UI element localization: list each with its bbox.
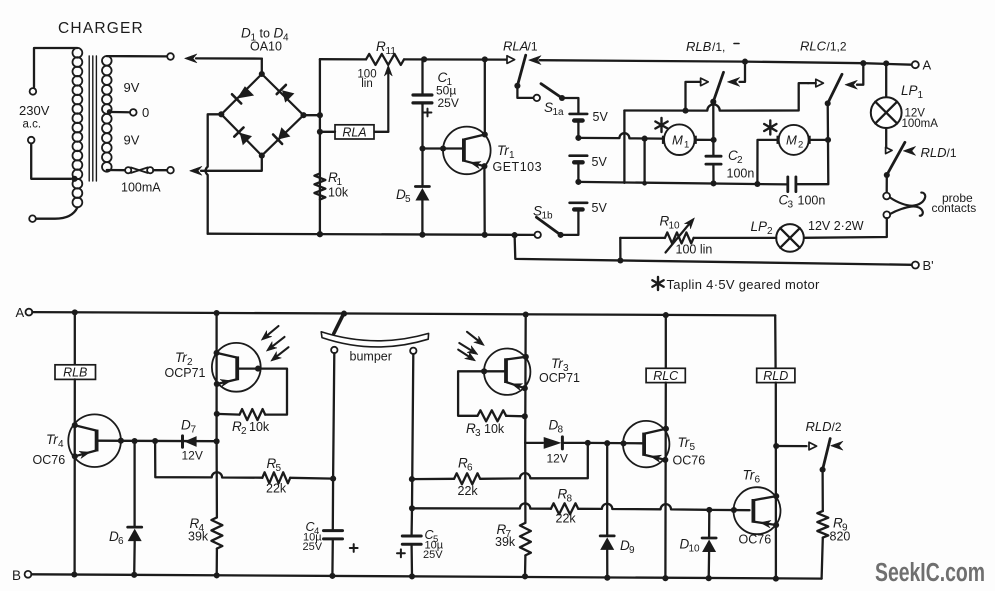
battery cell 5V (3) bbox=[561, 201, 608, 235]
light arrows Tr2 bbox=[261, 326, 288, 361]
wire RLD/1 to probe bbox=[886, 175, 888, 193]
label 100 lin bbox=[357, 69, 376, 91]
svg-text:OA10: OA10 bbox=[250, 40, 282, 54]
svg-text:SeekIC.com: SeekIC.com bbox=[875, 559, 985, 587]
label R4 39k bbox=[188, 516, 209, 544]
wire rail B bbox=[31, 571, 821, 581]
label R5 22k bbox=[266, 456, 287, 496]
wire M1 left branch bbox=[642, 139, 647, 186]
label Tr6 OC76 bbox=[739, 468, 772, 547]
wire tap1 to motor M1 bbox=[578, 133, 662, 141]
svg-text:9: 9 bbox=[629, 545, 635, 556]
bumper strut bbox=[334, 313, 344, 333]
label D7 12V bbox=[181, 418, 203, 463]
svg-text:RLA: RLA bbox=[503, 39, 528, 54]
svg-text:22k: 22k bbox=[266, 482, 287, 496]
primary terminal top + wire bbox=[30, 48, 78, 95]
wire M2 right bbox=[811, 137, 831, 143]
label C2 100n bbox=[727, 148, 755, 181]
diode D1 bbox=[232, 86, 254, 103]
svg-text:3: 3 bbox=[788, 200, 794, 211]
label S1a bbox=[544, 100, 564, 118]
diode D8 bbox=[525, 437, 585, 449]
switch S1b bbox=[535, 217, 564, 238]
svg-text:OC76: OC76 bbox=[673, 454, 706, 468]
diode D7 bbox=[183, 436, 197, 447]
label Tr3 OCP71 bbox=[539, 356, 580, 385]
svg-text:5: 5 bbox=[405, 194, 411, 205]
resistor R4 bbox=[211, 441, 222, 575]
svg-text:100mA: 100mA bbox=[121, 181, 161, 195]
svg-text:GET103: GET103 bbox=[493, 160, 543, 174]
label bumper bbox=[350, 350, 392, 364]
diode D3 bbox=[234, 128, 252, 146]
label R11 bbox=[376, 39, 396, 57]
label Tr5 OC76 bbox=[673, 435, 706, 468]
label D6 bbox=[109, 529, 124, 547]
capacitor C2 100n bbox=[706, 102, 721, 184]
wire B-prime rail bbox=[515, 235, 912, 265]
note Taplin motor bbox=[652, 277, 820, 292]
svg-text:5V: 5V bbox=[592, 201, 608, 215]
svg-text:D: D bbox=[274, 26, 284, 41]
svg-text:22k: 22k bbox=[556, 512, 577, 526]
switch S1a bbox=[517, 84, 578, 114]
relay contact RLB/1 bbox=[710, 59, 748, 105]
transformer T1 secondary winding bbox=[102, 56, 112, 172]
svg-text:/1: /1 bbox=[947, 146, 957, 160]
svg-text:RLC: RLC bbox=[653, 369, 679, 383]
junctions top wire bbox=[421, 56, 488, 62]
svg-text:6: 6 bbox=[755, 475, 761, 486]
wire LP1 to RLD/1 bbox=[885, 128, 887, 147]
svg-text:4: 4 bbox=[283, 33, 289, 44]
svg-text:22k: 22k bbox=[458, 484, 479, 498]
wire top + resistor R11 body bbox=[320, 54, 507, 65]
battery tap 1 bbox=[575, 135, 581, 141]
R10 adjust arrow bbox=[666, 218, 695, 253]
svg-text:25V: 25V bbox=[423, 549, 443, 561]
capacitor C1 50u bbox=[413, 59, 432, 148]
wire Tr5 base bbox=[588, 440, 642, 446]
svg-text:bumper: bumper bbox=[350, 350, 392, 364]
svg-text:5: 5 bbox=[690, 442, 696, 453]
label LP2 12V 2.2W bbox=[751, 219, 864, 237]
wire aux rail bbox=[624, 83, 808, 114]
wire Tr3 chord bbox=[522, 315, 529, 443]
svg-text:RLB: RLB bbox=[63, 366, 87, 380]
resistor R7 bbox=[520, 523, 531, 577]
svg-text:RLC: RLC bbox=[800, 39, 827, 54]
probe contacts bbox=[883, 193, 925, 219]
relay contact RLC/1,2 bbox=[825, 60, 867, 106]
bridge junctions bbox=[218, 71, 306, 159]
label S1b bbox=[533, 204, 553, 222]
svg-text:5V: 5V bbox=[592, 155, 608, 169]
RLC triangle terminal bbox=[808, 79, 823, 87]
transistor Tr6 bbox=[734, 487, 781, 534]
wire Tr6 base bbox=[709, 507, 749, 513]
svg-text:39k: 39k bbox=[188, 530, 209, 544]
svg-text:10k: 10k bbox=[484, 422, 505, 436]
wire bumper-right / C5 branch bbox=[409, 354, 415, 534]
svg-text:4: 4 bbox=[58, 439, 64, 450]
svg-text:2: 2 bbox=[737, 155, 743, 166]
svg-text:B': B' bbox=[923, 258, 934, 273]
capacitor C4 10u bbox=[324, 531, 358, 576]
wire aux to mid rail bbox=[623, 111, 625, 183]
svg-text:25V: 25V bbox=[303, 541, 323, 553]
svg-text:to: to bbox=[260, 27, 270, 41]
svg-text:1: 1 bbox=[684, 140, 689, 151]
svg-text:8: 8 bbox=[558, 425, 564, 436]
svg-text:Taplin 4·5V geared motor: Taplin 4·5V geared motor bbox=[667, 277, 821, 292]
svg-text:lin: lin bbox=[361, 78, 373, 90]
wire Tr3 chord lower bbox=[524, 443, 527, 523]
svg-text:contacts: contacts bbox=[932, 201, 977, 215]
wire top rail to A bbox=[540, 60, 912, 64]
resistor R10 body + wires bbox=[620, 232, 776, 243]
label RLB/1 bbox=[686, 39, 739, 54]
phototransistor Tr2 bbox=[212, 343, 261, 392]
motor M2 bbox=[777, 125, 811, 155]
resistor R9 bbox=[817, 470, 828, 579]
wire RLA to bus bbox=[320, 131, 335, 133]
svg-text:LP: LP bbox=[901, 83, 918, 98]
wire bumper-left / C4 branch bbox=[330, 353, 336, 529]
resistor R5 wire bbox=[155, 441, 333, 483]
diode D4 bbox=[273, 127, 290, 144]
diode D10 bbox=[702, 507, 716, 578]
label C3 100n bbox=[779, 193, 826, 211]
battery tap 2 bbox=[575, 179, 581, 185]
bridge diamond wires bbox=[221, 74, 303, 156]
svg-text:RLD: RLD bbox=[763, 369, 788, 383]
svg-text:RLB: RLB bbox=[686, 39, 712, 54]
lamp LP2 bbox=[776, 224, 804, 252]
label C1 50u 25V bbox=[436, 70, 459, 110]
diode D5 bbox=[396, 149, 429, 235]
fuse 100mA + secondary bottom wire bbox=[107, 167, 174, 174]
svg-text:RLA: RLA bbox=[342, 126, 366, 140]
svg-text:B: B bbox=[12, 568, 21, 583]
label RLC/1,2 bbox=[800, 39, 847, 54]
wire R10 branch bbox=[619, 238, 621, 261]
transistor Tr1 bbox=[424, 59, 491, 234]
secondary centre tap 0 bbox=[107, 105, 149, 120]
svg-text:2: 2 bbox=[798, 140, 803, 151]
bumper bar bbox=[321, 332, 428, 347]
svg-text:A: A bbox=[923, 58, 932, 73]
svg-text:A: A bbox=[16, 305, 25, 320]
label D1 to D4 OA10 bbox=[241, 26, 289, 54]
label RLD/2 bbox=[806, 419, 842, 434]
svg-text:10k: 10k bbox=[249, 420, 270, 434]
svg-text:Tr: Tr bbox=[743, 468, 755, 483]
label Tr1 GET103 bbox=[493, 143, 543, 174]
wire negative rail bbox=[208, 231, 535, 238]
label D10 bbox=[680, 537, 701, 555]
label LP1 12V 100mA bbox=[901, 83, 938, 130]
motor M1 bbox=[662, 124, 697, 155]
wire A to RLB coil bbox=[74, 312, 76, 364]
svg-text:CHARGER: CHARGER bbox=[58, 20, 144, 37]
svg-text:25V: 25V bbox=[438, 96, 459, 110]
svg-text:Tr: Tr bbox=[46, 432, 58, 447]
wire RLC through Tr5 to rail B bbox=[662, 383, 669, 579]
watermark SeekIC.com bbox=[875, 559, 985, 587]
label 9V upper bbox=[124, 80, 140, 95]
svg-text:10: 10 bbox=[669, 221, 681, 232]
label R9 820 bbox=[830, 516, 851, 544]
label R8 22k bbox=[556, 487, 577, 526]
terminal B bbox=[12, 568, 31, 583]
svg-text:2: 2 bbox=[767, 226, 773, 237]
svg-text:100mA: 100mA bbox=[902, 118, 939, 130]
asterisk M1 bbox=[655, 118, 667, 132]
label probe contacts bbox=[932, 191, 977, 215]
svg-text:12V 2·2W: 12V 2·2W bbox=[808, 219, 864, 233]
svg-text:11: 11 bbox=[386, 46, 397, 57]
transistor Tr5 bbox=[623, 421, 669, 467]
secondary top wire + terminal bbox=[107, 53, 174, 60]
svg-text:OCP71: OCP71 bbox=[165, 366, 206, 380]
relay coil RLA bbox=[335, 125, 374, 140]
svg-text:12V: 12V bbox=[182, 449, 203, 463]
bumper contacts bbox=[331, 347, 416, 354]
svg-text:M: M bbox=[786, 133, 797, 148]
label R2 10k bbox=[232, 419, 270, 437]
phototransistor Tr3 bbox=[484, 349, 530, 395]
label Tr2 OCP71 bbox=[165, 350, 206, 380]
wire positive bus bbox=[317, 59, 323, 237]
svg-text:9V: 9V bbox=[124, 80, 140, 95]
svg-text:Tr: Tr bbox=[497, 143, 509, 158]
lamp LP1 bbox=[871, 97, 902, 128]
svg-text:10k: 10k bbox=[328, 186, 349, 200]
svg-text:100 lin: 100 lin bbox=[676, 243, 713, 257]
svg-text:6: 6 bbox=[467, 463, 473, 474]
svg-text:6: 6 bbox=[118, 536, 124, 547]
diode D9 bbox=[600, 443, 614, 578]
svg-text:3: 3 bbox=[475, 428, 481, 439]
wire to LP1 bbox=[883, 60, 889, 97]
wire M1 right bbox=[697, 137, 717, 143]
transformer T1 core bbox=[89, 56, 96, 181]
svg-text:/2: /2 bbox=[832, 420, 842, 434]
svg-text:1b: 1b bbox=[542, 211, 554, 222]
primary terminal bottom + wire bbox=[29, 208, 77, 223]
svg-text:39k: 39k bbox=[495, 535, 516, 549]
svg-text:8: 8 bbox=[567, 494, 573, 505]
relay contact RLD/2 bbox=[776, 439, 843, 473]
relay contact RLD/1 bbox=[884, 142, 916, 178]
junction D8/R6 bbox=[585, 440, 591, 446]
label 100mA bbox=[121, 181, 161, 195]
light arrows Tr3 bbox=[458, 332, 484, 361]
diode D2 bbox=[277, 85, 295, 103]
svg-text:/1,: /1, bbox=[712, 40, 725, 54]
resistor R1 10k bbox=[314, 170, 349, 200]
svg-text:R: R bbox=[376, 39, 386, 54]
label RLD/1 bbox=[921, 145, 957, 160]
svg-text:OCP71: OCP71 bbox=[539, 371, 580, 385]
label 230V a.c. bbox=[19, 103, 50, 131]
wire bridge top bbox=[261, 59, 263, 74]
wire mid rail bbox=[578, 180, 787, 187]
wire Tr2 chord bbox=[214, 313, 220, 441]
svg-text:100n: 100n bbox=[727, 167, 755, 181]
relay contact RLA/1 bbox=[507, 55, 541, 89]
svg-text:Tr: Tr bbox=[551, 356, 563, 371]
svg-text:D: D bbox=[241, 26, 251, 41]
wire RLC blade to C3 bbox=[797, 103, 828, 184]
diode D6 bbox=[128, 441, 142, 575]
resistor R8 wire bbox=[412, 503, 707, 514]
svg-text:a.c.: a.c. bbox=[23, 119, 42, 131]
svg-text:/1,2: /1,2 bbox=[827, 40, 847, 54]
svg-text:100n: 100n bbox=[798, 194, 826, 208]
svg-text:10: 10 bbox=[689, 544, 701, 555]
RLB/1 triangle terminal bbox=[686, 78, 709, 108]
svg-text:5: 5 bbox=[276, 463, 282, 474]
wire A to RLD coil bbox=[774, 315, 777, 368]
relay coil RLC bbox=[646, 368, 685, 383]
wire rail A bbox=[32, 309, 775, 318]
relay coil RLB bbox=[55, 365, 96, 380]
label RLA/1 bbox=[503, 39, 538, 54]
label R7 39k bbox=[495, 522, 516, 549]
svg-text:820: 820 bbox=[830, 530, 851, 544]
resistor R6 wire bbox=[412, 443, 588, 484]
label 9V lower bbox=[124, 133, 140, 148]
primary tap terminal + wire bbox=[28, 137, 78, 182]
label C5 10u 25V bbox=[423, 528, 444, 561]
wire bridge right to bus bbox=[304, 114, 320, 116]
label Tr4 OC76 bbox=[33, 432, 66, 467]
svg-text:Tr: Tr bbox=[175, 350, 187, 365]
svg-text:7: 7 bbox=[191, 425, 197, 436]
label R10 100 lin bbox=[660, 214, 713, 257]
terminal B' bbox=[912, 258, 934, 273]
svg-text:LP: LP bbox=[751, 219, 768, 234]
svg-text:1a: 1a bbox=[553, 107, 565, 118]
label D8 12V bbox=[547, 418, 568, 466]
svg-text:M: M bbox=[672, 133, 683, 148]
asterisk M2 bbox=[764, 121, 776, 135]
relay coil RLD bbox=[757, 368, 795, 383]
svg-text:D: D bbox=[181, 418, 191, 433]
svg-text:/1: /1 bbox=[528, 40, 538, 54]
transistor Tr4 bbox=[68, 414, 121, 467]
svg-text:12V: 12V bbox=[547, 452, 568, 466]
junction C1/D5/base bbox=[419, 145, 425, 151]
wire RLB through Tr4 to rail B bbox=[73, 379, 76, 574]
wire Tr4 base bbox=[99, 438, 220, 445]
label D9 bbox=[620, 538, 635, 556]
R11 wiper arm bbox=[374, 65, 392, 132]
svg-text:OC76: OC76 bbox=[33, 453, 66, 467]
transformer T1 primary winding bbox=[73, 48, 83, 207]
terminal A (top) bbox=[912, 58, 932, 73]
wire M2 left bbox=[757, 140, 776, 184]
wire bridge left to negative rail bbox=[205, 114, 221, 233]
wire RLD through Tr6 to rail B bbox=[773, 383, 779, 579]
svg-text:9V: 9V bbox=[124, 133, 140, 148]
svg-text:RLD: RLD bbox=[806, 419, 832, 434]
capacitor C5 10u bbox=[397, 536, 421, 576]
svg-text:2: 2 bbox=[241, 426, 247, 437]
label C4 10u 25V bbox=[303, 520, 323, 553]
svg-text:0: 0 bbox=[142, 105, 149, 120]
svg-text:230V: 230V bbox=[19, 103, 50, 118]
label R3 10k bbox=[466, 421, 505, 439]
wire + arrow to charger positive bbox=[185, 54, 262, 63]
terminal A (bottom) bbox=[16, 305, 33, 320]
battery cell 5V (2) bbox=[570, 155, 608, 182]
resistor R3 loop bbox=[458, 368, 525, 421]
battery cell 5V (1) bbox=[570, 110, 609, 138]
wire A to RLC coil bbox=[665, 315, 667, 368]
label CHARGER bbox=[58, 20, 144, 37]
svg-text:OC76: OC76 bbox=[739, 533, 772, 547]
svg-text:1: 1 bbox=[918, 90, 924, 101]
wire + arrow to charger return bbox=[190, 159, 262, 176]
svg-text:RLD: RLD bbox=[921, 145, 947, 160]
svg-text:5V: 5V bbox=[593, 110, 609, 124]
label R6 22k bbox=[458, 456, 479, 499]
resistor R2 loop bbox=[217, 366, 287, 421]
capacitor C3 100n bbox=[788, 177, 796, 192]
wire probe to LP2 bbox=[804, 218, 887, 238]
svg-text:Tr: Tr bbox=[678, 435, 690, 450]
